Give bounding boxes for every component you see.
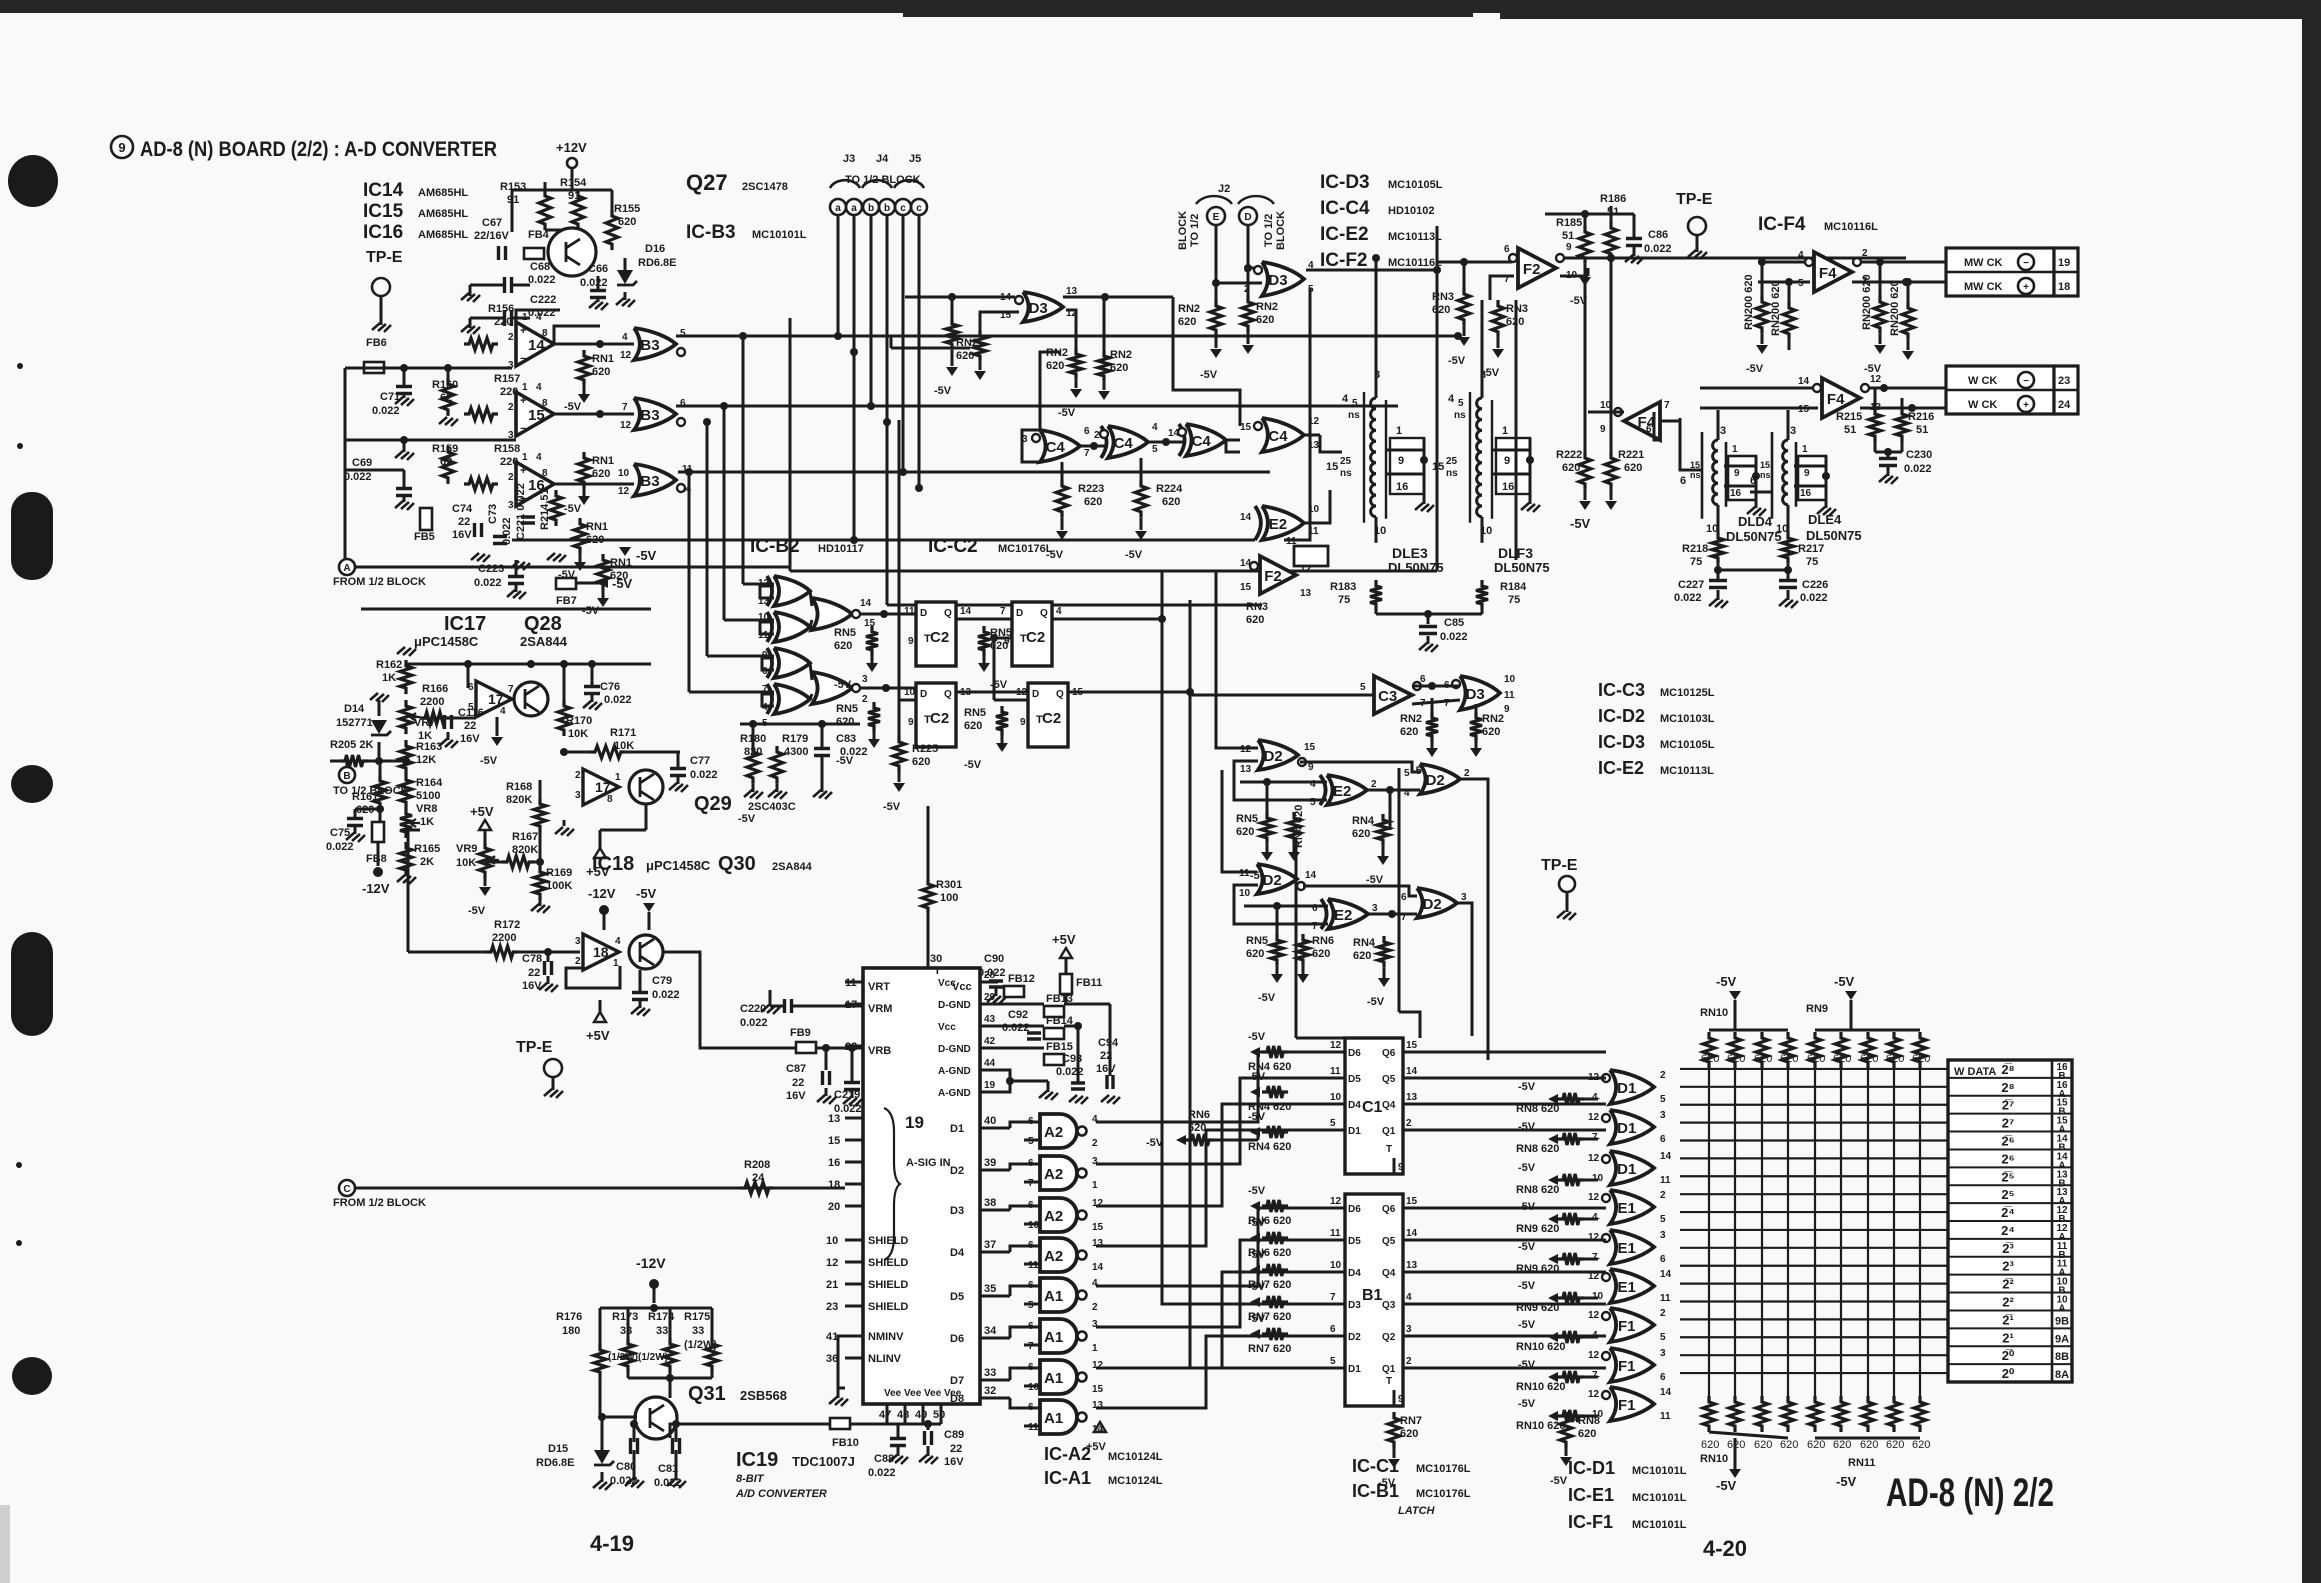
- wire R185/R186 top rail: [1545, 213, 1634, 216]
- svg-text:7: 7: [622, 402, 628, 413]
- svg-text:620: 620: [1912, 1439, 1930, 1451]
- wire F4 third: [1588, 411, 1624, 414]
- svg-text:FB7: FB7: [556, 595, 577, 607]
- svg-text:IC14: IC14: [363, 180, 404, 201]
- svg-text:D-GND: D-GND: [938, 1044, 971, 1055]
- svg-text:11: 11: [1660, 1411, 1671, 1422]
- svg-text:14: 14: [1660, 1269, 1672, 1280]
- vertical feed x724: [723, 406, 726, 620]
- gate F1 row9: [1610, 1387, 1654, 1421]
- svg-text:620: 620: [1312, 948, 1330, 960]
- svg-text:0.022: 0.022: [528, 274, 556, 286]
- svg-text:620: 620: [1400, 1428, 1418, 1440]
- svg-text:R156: R156: [488, 303, 514, 315]
- svg-text:11: 11: [1308, 526, 1319, 537]
- svg-text:16V: 16V: [786, 1090, 806, 1102]
- svg-text:13: 13: [828, 1113, 840, 1125]
- svg-text:15: 15: [828, 1135, 840, 1147]
- gate B3 a: [634, 328, 676, 360]
- wires D pins to A gates: [1010, 1122, 1040, 1128]
- svg-text:RN3: RN3: [1246, 601, 1268, 613]
- wires latch outputs to gates: [1425, 1051, 1606, 1054]
- svg-text:C87: C87: [786, 1063, 806, 1075]
- svg-text:14: 14: [1406, 1066, 1418, 1077]
- svg-text:D4: D4: [1348, 1100, 1361, 1111]
- svg-text:12: 12: [1588, 1389, 1600, 1400]
- svg-text:16V: 16V: [944, 1456, 964, 1468]
- gate D2 b: [1420, 764, 1460, 794]
- svg-text:2⁰: 2⁰: [2002, 1366, 2015, 1381]
- svg-text:TO 1/2 BLOCK: TO 1/2 BLOCK: [845, 174, 921, 186]
- svg-text:D6: D6: [1348, 1204, 1361, 1215]
- wire C3 to D3: [1414, 685, 1460, 688]
- svg-text:R175: R175: [684, 1311, 710, 1323]
- wire D3 left input: [905, 296, 1015, 299]
- svg-text:RN6: RN6: [1312, 935, 1334, 947]
- svg-text:C4: C4: [1192, 433, 1212, 450]
- wires F4b: [1700, 387, 1813, 390]
- wire R153/R154 bottom: [545, 229, 578, 232]
- svg-text:R216: R216: [1908, 411, 1934, 423]
- svg-text:IC-E1: IC-E1: [1568, 1485, 1614, 1505]
- inverter C3: [1374, 676, 1412, 714]
- svg-text:22: 22: [792, 1077, 804, 1089]
- wire D2d out down: [1457, 903, 1472, 1036]
- svg-text:J2: J2: [1218, 183, 1230, 195]
- svg-text:2⁵: 2⁵: [2001, 1187, 2014, 1202]
- svg-text:TO 1/2: TO 1/2: [1263, 214, 1275, 247]
- wires J-block verticals: [837, 228, 840, 336]
- svg-text:2SA844: 2SA844: [520, 634, 568, 649]
- svg-text:4: 4: [1152, 422, 1158, 433]
- resistor RN5 620: [978, 626, 990, 656]
- svg-text:0.022: 0.022: [501, 517, 513, 545]
- wires D2a-E2a-D2b: [1300, 762, 1420, 772]
- svg-text:3: 3: [1720, 425, 1726, 437]
- svg-text:E: E: [1213, 212, 1220, 223]
- array resistor 620: [1888, 1032, 1900, 1068]
- svg-text:9B: 9B: [2055, 1315, 2069, 1327]
- svg-text:9: 9: [1398, 455, 1404, 467]
- svg-text:9: 9: [1398, 1394, 1404, 1405]
- gate stack nand b: [812, 672, 852, 704]
- svg-text:35: 35: [984, 1283, 996, 1295]
- svg-text:2200: 2200: [420, 696, 444, 708]
- svg-text:E1: E1: [1618, 1279, 1636, 1296]
- svg-text:+: +: [520, 465, 526, 477]
- svg-text:FB4: FB4: [528, 229, 550, 241]
- svg-text:14: 14: [528, 337, 545, 354]
- -5V arrow top: [619, 547, 631, 556]
- svg-text:B1: B1: [1362, 1287, 1383, 1304]
- IC19 data pins: [980, 1127, 1010, 1130]
- svg-text:FB10: FB10: [832, 1437, 859, 1449]
- wire Q31 emitter rail: [670, 1424, 830, 1438]
- svg-text:C2: C2: [930, 710, 949, 727]
- svg-text:RN1: RN1: [592, 455, 614, 467]
- svg-text:10: 10: [618, 468, 630, 479]
- svg-text:FROM 1/2 BLOCK: FROM 1/2 BLOCK: [333, 576, 426, 588]
- svg-text:2̅⁴: 2̅⁴: [2001, 1205, 2015, 1220]
- svg-text:30: 30: [930, 953, 942, 965]
- svg-text:15: 15: [1326, 461, 1338, 473]
- svg-text:Q27: Q27: [686, 170, 728, 195]
- svg-text:TO 1/2: TO 1/2: [1189, 214, 1201, 247]
- svg-text:0.022: 0.022: [1904, 463, 1932, 475]
- svg-text:620: 620: [1807, 1053, 1825, 1065]
- svg-text:RN4: RN4: [1353, 937, 1376, 949]
- svg-text:9: 9: [908, 717, 914, 728]
- svg-text:MC10101L: MC10101L: [1632, 1465, 1687, 1477]
- svg-text:-5V: -5V: [1248, 1185, 1266, 1197]
- capacitor C85: [1427, 614, 1430, 624]
- svg-text:DLE4: DLE4: [1808, 512, 1842, 527]
- svg-text:RN2: RN2: [1400, 713, 1422, 725]
- svg-text:2: 2: [1406, 1356, 1412, 1367]
- svg-text:33: 33: [692, 1325, 704, 1337]
- svg-text:18: 18: [593, 944, 609, 960]
- svg-text:620: 620: [1578, 1428, 1596, 1440]
- wire bundle gates to right: [1708, 1068, 1710, 1396]
- svg-text:8A: 8A: [2055, 1369, 2069, 1381]
- svg-text:C73: C73: [487, 504, 499, 524]
- svg-text:5: 5: [1660, 1094, 1666, 1105]
- svg-text:620: 620: [1400, 726, 1418, 738]
- svg-text:Vcc: Vcc: [938, 978, 956, 989]
- title: [111, 136, 133, 158]
- svg-text:F2: F2: [1264, 568, 1282, 585]
- svg-text:AD-8 (N) BOARD (2/2) : A-D CON: AD-8 (N) BOARD (2/2) : A-D CONVERTER: [140, 138, 497, 161]
- gate A1 row5: [1040, 1278, 1077, 1312]
- svg-text:9: 9: [1600, 424, 1606, 435]
- svg-text:15: 15: [1406, 1040, 1418, 1051]
- gate E2 b: [1328, 899, 1368, 929]
- svg-text:16V: 16V: [460, 733, 480, 745]
- svg-text:620: 620: [1780, 1439, 1798, 1451]
- svg-text:-5V: -5V: [636, 548, 657, 563]
- svg-text:-5V: -5V: [1058, 407, 1076, 419]
- svg-text:620: 620: [592, 468, 610, 480]
- svg-text:620: 620: [1178, 316, 1196, 328]
- svg-text:13: 13: [1066, 286, 1078, 297]
- svg-text:DL50N75: DL50N75: [1726, 529, 1782, 544]
- svg-text:IC-F1: IC-F1: [1568, 1512, 1613, 1532]
- svg-text:12: 12: [1588, 1112, 1600, 1123]
- svg-text:D1: D1: [1617, 1161, 1636, 1178]
- svg-text:620: 620: [592, 366, 610, 378]
- svg-text:AM685HL: AM685HL: [418, 208, 468, 220]
- svg-text:6: 6: [1660, 1372, 1666, 1383]
- svg-text:-5V: -5V: [1518, 1280, 1536, 1292]
- svg-text:RN8: RN8: [1578, 1415, 1600, 1427]
- resistor RN5 620: [866, 626, 878, 656]
- svg-text:1K: 1K: [382, 672, 396, 684]
- svg-text:−: −: [2023, 258, 2029, 269]
- svg-text:620: 620: [1807, 1439, 1825, 1451]
- svg-text:620: 620: [1833, 1053, 1851, 1065]
- svg-text:2SB568: 2SB568: [740, 1388, 787, 1403]
- svg-text:620: 620: [834, 640, 852, 652]
- resistor RN1 620: [578, 350, 590, 386]
- svg-text:Vcc: Vcc: [938, 1022, 956, 1033]
- svg-text:1: 1: [522, 452, 528, 463]
- svg-text:9: 9: [1308, 762, 1314, 773]
- flip-flop C2: [916, 683, 956, 747]
- svg-text:33: 33: [620, 1325, 632, 1337]
- svg-text:F1: F1: [1618, 1358, 1636, 1375]
- svg-text:100K: 100K: [546, 880, 572, 892]
- svg-text:12: 12: [1588, 1310, 1600, 1321]
- svg-text:VR9: VR9: [456, 843, 477, 855]
- svg-text:10: 10: [1600, 400, 1612, 411]
- wire +12V rail: [512, 189, 612, 192]
- gate E1 row5: [1610, 1230, 1654, 1264]
- resistor RN2 620 e: [1426, 712, 1438, 742]
- svg-text:3: 3: [1660, 1110, 1666, 1121]
- svg-text:A-SIG IN: A-SIG IN: [906, 1157, 951, 1169]
- resistor RN200 b: [1783, 302, 1795, 340]
- svg-text:IC-C1: IC-C1: [1352, 1456, 1399, 1476]
- svg-text:A2: A2: [1044, 1124, 1063, 1141]
- svg-text:10: 10: [1480, 525, 1492, 537]
- svg-text:3: 3: [1406, 1324, 1412, 1335]
- svg-text:C3: C3: [1378, 688, 1397, 705]
- svg-text:Q28: Q28: [524, 613, 562, 635]
- svg-text:Q: Q: [1056, 689, 1064, 700]
- wires C2 clock: [899, 613, 916, 616]
- svg-text:1: 1: [1092, 1180, 1098, 1191]
- svg-text:3: 3: [1461, 892, 1467, 903]
- resistor RN4 620 rot: [1288, 812, 1300, 844]
- wire R180 rail: [740, 723, 860, 726]
- svg-text:0.022: 0.022: [1674, 592, 1702, 604]
- svg-text:C68: C68: [530, 261, 550, 273]
- svg-text:16V: 16V: [452, 529, 472, 541]
- svg-text:50: 50: [933, 1409, 945, 1421]
- svg-text:D3: D3: [1466, 686, 1485, 703]
- svg-text:AM685HL: AM685HL: [418, 187, 468, 199]
- svg-text:R223: R223: [1078, 483, 1104, 495]
- resistor RN4 620 c: [1377, 814, 1389, 846]
- svg-text:9: 9: [1020, 717, 1026, 728]
- comparator 16: [516, 462, 554, 506]
- svg-text:14: 14: [1798, 376, 1810, 387]
- svg-text:R157: R157: [494, 373, 520, 385]
- wire left rail horizontal: [345, 367, 512, 370]
- svg-text:-5V: -5V: [480, 755, 498, 767]
- svg-text:-5V: -5V: [1518, 1081, 1536, 1093]
- svg-text:10K: 10K: [456, 857, 476, 869]
- svg-text:R184: R184: [1500, 581, 1527, 593]
- IC19 right side pins top: [980, 981, 998, 984]
- svg-text:40: 40: [984, 1115, 996, 1127]
- svg-text:7: 7: [1330, 1292, 1336, 1303]
- svg-text:0.022: 0.022: [740, 1017, 768, 1029]
- svg-text:ns: ns: [1348, 410, 1360, 421]
- svg-text:C76: C76: [600, 681, 620, 693]
- transistor Q30: [629, 935, 663, 969]
- svg-text:IC-D3: IC-D3: [1598, 732, 1645, 752]
- svg-text:R225: R225: [912, 743, 938, 755]
- svg-text:620: 620: [1754, 1053, 1772, 1065]
- svg-text:3: 3: [508, 500, 514, 511]
- svg-text:R208: R208: [744, 1159, 770, 1171]
- svg-text:-5V: -5V: [564, 503, 582, 515]
- svg-text:3: 3: [1660, 1230, 1666, 1241]
- svg-text:8: 8: [542, 398, 548, 409]
- svg-text:R168: R168: [506, 781, 532, 793]
- wire comparator outputs: [554, 343, 634, 346]
- svg-text:2: 2: [575, 770, 581, 781]
- svg-text:F4: F4: [1827, 391, 1845, 408]
- svg-text:SHIELD: SHIELD: [868, 1235, 908, 1247]
- +5V under 18: [594, 1012, 606, 1022]
- wire F2 out east: [1564, 257, 1906, 260]
- wire ic17 mid rail: [406, 663, 651, 666]
- svg-text:D2: D2: [1264, 748, 1283, 765]
- svg-text:12: 12: [1330, 1040, 1342, 1051]
- resistor RN5 620 lower: [996, 706, 1008, 736]
- gate A1 row6: [1040, 1319, 1077, 1353]
- svg-text:620: 620: [1353, 950, 1371, 962]
- wire A1 out to B1 D2: [1096, 1336, 1325, 1408]
- svg-text:RN9: RN9: [1806, 1003, 1828, 1015]
- svg-text:12: 12: [1308, 416, 1320, 427]
- svg-text:c: c: [916, 203, 922, 214]
- svg-text:D1: D1: [1617, 1080, 1636, 1097]
- gate A2 row2: [1040, 1156, 1077, 1190]
- svg-text:C75: C75: [330, 827, 350, 839]
- wire A2 out to C1 D5: [1096, 1078, 1325, 1164]
- svg-text:VR8: VR8: [416, 803, 437, 815]
- svg-text:6: 6: [1680, 475, 1686, 487]
- svg-text:4: 4: [536, 312, 542, 323]
- terminal B: [339, 767, 355, 783]
- svg-text:RN11: RN11: [1848, 1457, 1876, 1469]
- svg-text:RN10 620: RN10 620: [1516, 1341, 1566, 1353]
- svg-text:3: 3: [1790, 425, 1796, 437]
- svg-text:C1: C1: [1362, 1099, 1383, 1116]
- svg-text:12: 12: [1330, 1196, 1342, 1207]
- svg-text:51: 51: [1607, 206, 1619, 218]
- svg-text:D: D: [1244, 212, 1251, 223]
- svg-text:ns: ns: [1454, 410, 1466, 421]
- comparator 14: [516, 322, 554, 366]
- gate stack xor b: [774, 612, 810, 642]
- gate stack xor a: [774, 576, 810, 606]
- svg-text:IC-D3: IC-D3: [1320, 172, 1370, 193]
- scan artifact right bar: [2302, 0, 2321, 1583]
- resistor RN1 620: [574, 518, 586, 554]
- array resistor 620 b: [1703, 1396, 1715, 1432]
- svg-text:MC10113L: MC10113L: [1660, 765, 1714, 777]
- svg-text:RN10 620: RN10 620: [1516, 1420, 1566, 1432]
- svg-text:-5V: -5V: [964, 759, 982, 771]
- svg-text:4300: 4300: [784, 746, 808, 758]
- array resistor 620: [1729, 1032, 1741, 1068]
- svg-text:18: 18: [2058, 281, 2070, 293]
- svg-text:620: 620: [1432, 304, 1450, 316]
- svg-text:3: 3: [575, 936, 581, 947]
- svg-text:1: 1: [615, 772, 621, 783]
- svg-text:D7: D7: [950, 1375, 964, 1387]
- svg-text:7: 7: [1000, 606, 1006, 617]
- svg-text:R172: R172: [494, 919, 520, 931]
- svg-text:RN5: RN5: [836, 703, 858, 715]
- svg-text:2̅⁶: 2̅⁶: [2001, 1134, 2014, 1149]
- connector pin c: [895, 199, 911, 215]
- array resistor 620: [1703, 1032, 1715, 1068]
- wires D2c-E2b-D2d: [1303, 886, 1417, 896]
- svg-text:12: 12: [1870, 374, 1882, 385]
- svg-text:IC-D1: IC-D1: [1568, 1458, 1615, 1478]
- svg-text:2²: 2²: [2002, 1295, 2014, 1310]
- svg-text:IC18: IC18: [592, 853, 634, 875]
- svg-text:22: 22: [950, 1443, 962, 1455]
- svg-text:R158: R158: [494, 443, 520, 455]
- svg-text:14: 14: [1660, 1151, 1672, 1162]
- wire C3 input long: [1190, 694, 1374, 697]
- svg-text:2: 2: [1092, 1138, 1098, 1149]
- svg-text:C89: C89: [944, 1429, 964, 1441]
- wire D3 left out13: [1063, 296, 1173, 299]
- svg-text:4: 4: [1448, 393, 1455, 405]
- svg-text:RN5: RN5: [990, 627, 1012, 639]
- svg-text:6: 6: [1646, 424, 1652, 435]
- svg-text:-5V: -5V: [1836, 1474, 1857, 1489]
- svg-text:2̅¹: 2̅¹: [2002, 1312, 2014, 1327]
- svg-text:R153: R153: [500, 181, 526, 193]
- svg-text:C2: C2: [1042, 710, 1061, 727]
- punch hole mark 2: [11, 492, 53, 580]
- svg-text:RN1: RN1: [586, 521, 608, 533]
- wire vertical to B1 D1: [1190, 1060, 1325, 1368]
- svg-text:Q1: Q1: [1382, 1126, 1396, 1137]
- svg-text:-5V: -5V: [582, 605, 600, 617]
- svg-text:E2: E2: [1333, 783, 1351, 800]
- svg-text:+5V: +5V: [470, 804, 494, 819]
- gate A2 row3: [1040, 1198, 1077, 1232]
- svg-text:A1: A1: [1044, 1370, 1063, 1387]
- svg-text:22/16V: 22/16V: [474, 230, 510, 242]
- svg-text:RD6.8E: RD6.8E: [536, 1457, 575, 1469]
- ground near C68: [469, 285, 472, 296]
- wire A1 out to B1 D6: [1096, 1208, 1325, 1286]
- svg-text:A1: A1: [1044, 1288, 1063, 1305]
- svg-text:620: 620: [1912, 1053, 1930, 1065]
- svg-text:+5V: +5V: [1086, 1441, 1107, 1453]
- svg-text:2: 2: [862, 694, 868, 705]
- svg-text:R164: R164: [416, 777, 443, 789]
- svg-text:MC10116L: MC10116L: [1388, 257, 1442, 269]
- svg-text:-5V: -5V: [1200, 369, 1218, 381]
- capacitor C230: [1874, 442, 1877, 452]
- resistor RN200 d: [1902, 302, 1914, 340]
- array resistor 620: [1835, 1032, 1847, 1068]
- ground R162 top: [397, 647, 416, 656]
- svg-text:R154: R154: [560, 177, 587, 189]
- svg-text:RN5: RN5: [1246, 935, 1268, 947]
- svg-text:9A: 9A: [2055, 1333, 2069, 1345]
- wire bus y605: [887, 604, 1262, 607]
- svg-text:R169: R169: [546, 867, 572, 879]
- svg-text:FB8: FB8: [366, 853, 387, 865]
- svg-text:D4: D4: [950, 1247, 965, 1259]
- svg-text:51: 51: [1916, 424, 1928, 436]
- wire out5 corner to RN2: [890, 336, 893, 348]
- svg-text:IC-C2: IC-C2: [928, 536, 978, 557]
- svg-text:620: 620: [1352, 828, 1370, 840]
